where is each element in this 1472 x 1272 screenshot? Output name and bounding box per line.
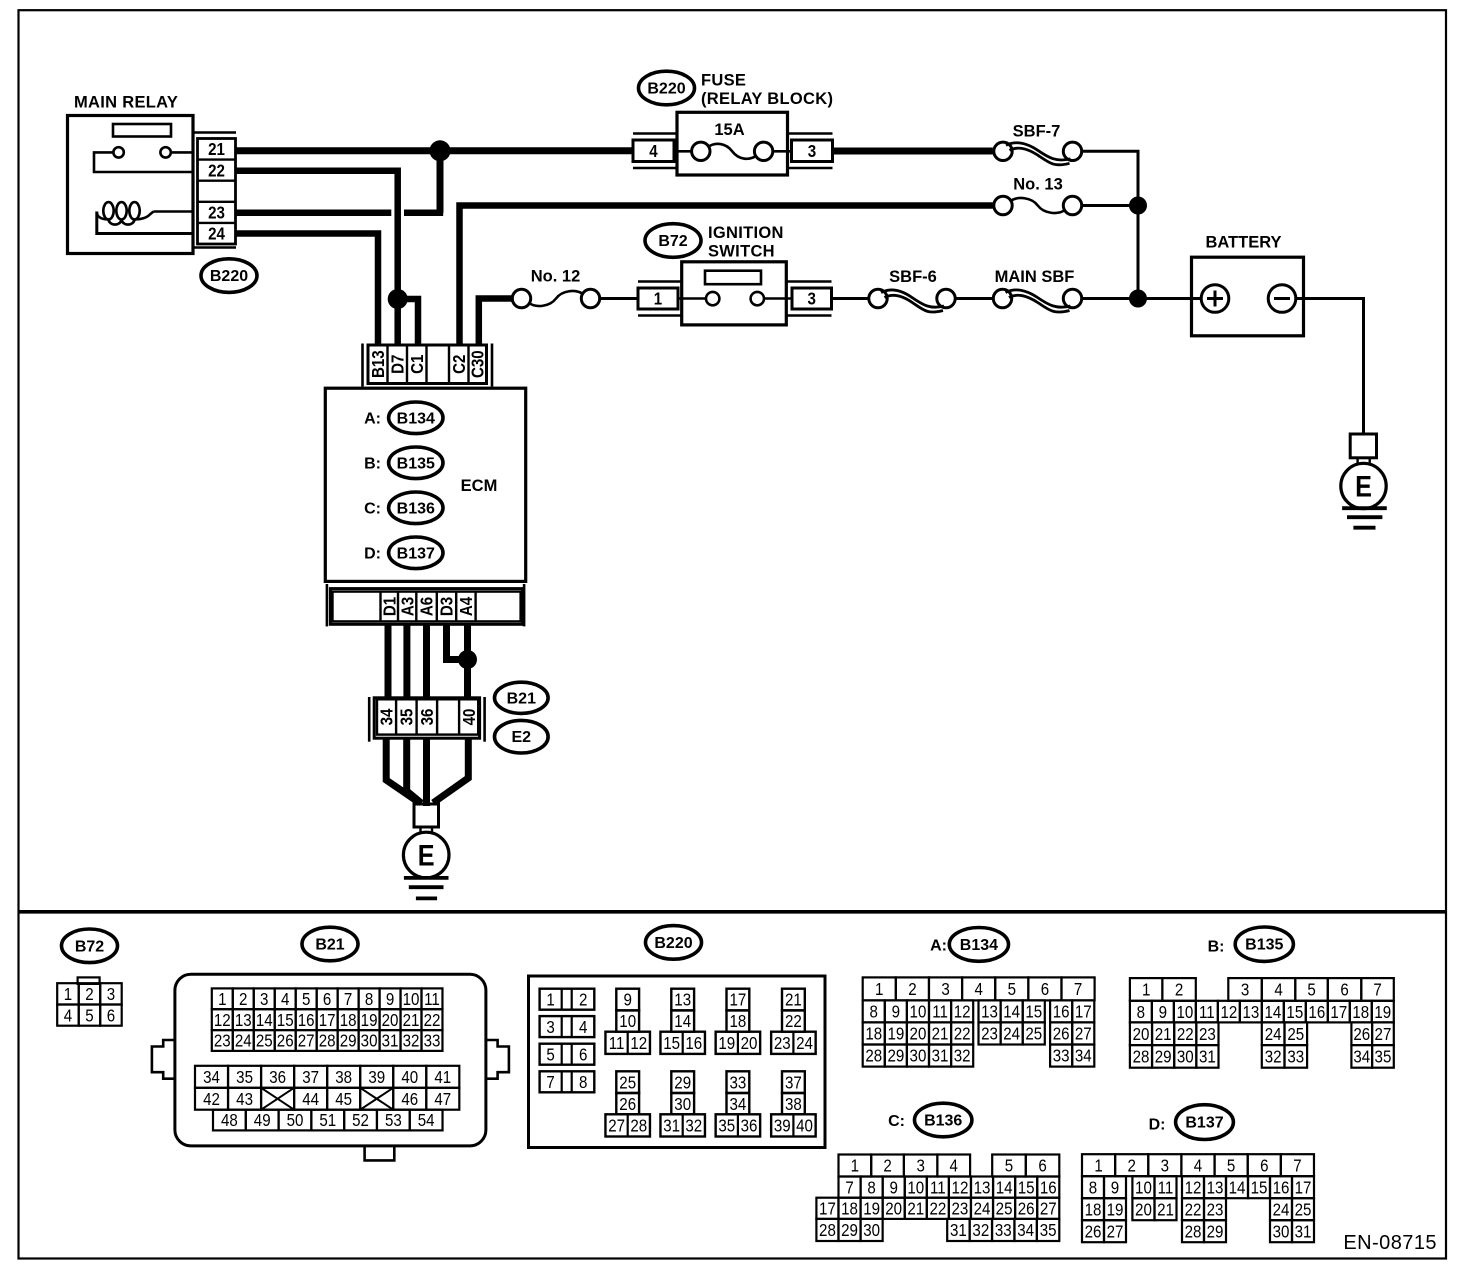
svg-text:B134: B134 — [397, 410, 435, 427]
ground connector flanges — [368, 697, 371, 742]
svg-text:4: 4 — [974, 979, 982, 1000]
svg-text:6: 6 — [107, 1005, 115, 1026]
svg-text:C2: C2 — [449, 355, 470, 374]
svg-text:4: 4 — [1274, 979, 1282, 1000]
svg-text:27: 27 — [1040, 1198, 1057, 1219]
svg-text:29: 29 — [1155, 1046, 1172, 1067]
svg-text:13: 13 — [1242, 1002, 1259, 1023]
svg-text:22: 22 — [785, 1011, 802, 1032]
ground connector pins 34/35/36/40 — [374, 698, 479, 738]
svg-text:31: 31 — [1199, 1046, 1216, 1067]
wire SBF-7 to bus — [1082, 151, 1138, 205]
svg-text:27: 27 — [608, 1115, 625, 1136]
svg-text:12: 12 — [630, 1033, 647, 1054]
svg-text:11: 11 — [1158, 1177, 1174, 1198]
svg-text:22: 22 — [1177, 1024, 1194, 1045]
svg-text:21: 21 — [785, 989, 802, 1010]
ground connector square (left) — [414, 804, 439, 827]
wire ECM C2 to fuse No.13 — [460, 206, 993, 346]
svg-text:10: 10 — [1135, 1177, 1152, 1198]
ECM connector B134 oval — [949, 928, 1008, 962]
svg-text:EN-08715: EN-08715 — [1343, 1232, 1437, 1254]
svg-text:14: 14 — [1229, 1177, 1246, 1198]
svg-text:32: 32 — [954, 1045, 971, 1066]
svg-text:15: 15 — [1251, 1177, 1268, 1198]
svg-text:18: 18 — [1085, 1199, 1102, 1220]
svg-text:(RELAY BLOCK): (RELAY BLOCK) — [701, 90, 833, 108]
svg-text:35: 35 — [1375, 1046, 1392, 1067]
relay block fuse groups — [605, 989, 815, 1137]
ECM bottom connector flanges — [326, 584, 329, 626]
svg-text:9: 9 — [1111, 1177, 1119, 1198]
svg-text:35: 35 — [396, 709, 417, 726]
svg-text:28: 28 — [319, 1030, 336, 1051]
svg-text:18: 18 — [865, 1023, 882, 1044]
svg-text:5: 5 — [1307, 979, 1315, 1000]
svg-text:26: 26 — [277, 1030, 294, 1051]
connector B21 pins 48-54 — [213, 1110, 443, 1131]
svg-text:7: 7 — [546, 1072, 554, 1093]
svg-text:24: 24 — [1265, 1024, 1282, 1045]
svg-text:C30: C30 — [467, 350, 488, 378]
svg-text:11: 11 — [932, 1001, 948, 1022]
svg-text:12: 12 — [214, 1010, 231, 1031]
svg-text:11: 11 — [1199, 1002, 1215, 1023]
connector B21 oval (bottom) — [302, 927, 358, 961]
svg-text:B13: B13 — [368, 350, 389, 378]
svg-text:2: 2 — [239, 989, 247, 1010]
svg-text:B135: B135 — [397, 455, 435, 472]
wire ECM C30 to fuse No.12 — [479, 299, 513, 346]
svg-text:13: 13 — [1207, 1177, 1224, 1198]
svg-text:8: 8 — [579, 1072, 587, 1093]
svg-text:9: 9 — [889, 1177, 897, 1198]
svg-text:11: 11 — [424, 989, 440, 1010]
wire pin23 (with crossover break) — [236, 209, 392, 216]
svg-text:22: 22 — [929, 1198, 946, 1219]
bus vertical to battery feed — [1137, 206, 1140, 299]
svg-text:6: 6 — [323, 989, 331, 1010]
svg-text:34: 34 — [1075, 1045, 1092, 1066]
svg-text:42: 42 — [203, 1089, 220, 1110]
svg-text:3: 3 — [1161, 1155, 1169, 1176]
svg-text:38: 38 — [785, 1094, 802, 1115]
svg-text:7: 7 — [1293, 1155, 1301, 1176]
funnel wire 34 — [386, 738, 419, 803]
svg-text:33: 33 — [1053, 1045, 1070, 1066]
wire ECM A4 to pin 40 — [464, 624, 471, 699]
svg-text:12: 12 — [952, 1177, 969, 1198]
svg-text:23: 23 — [214, 1030, 231, 1051]
svg-text:B:: B: — [1208, 938, 1225, 955]
svg-text:27: 27 — [1107, 1221, 1124, 1242]
svg-text:32: 32 — [403, 1030, 420, 1051]
svg-text:53: 53 — [385, 1110, 402, 1131]
svg-text:A6: A6 — [416, 597, 437, 616]
svg-text:19: 19 — [1107, 1199, 1124, 1220]
svg-text:51: 51 — [319, 1110, 336, 1131]
svg-text:14: 14 — [256, 1010, 273, 1031]
wire battery minus to ground E — [1304, 299, 1364, 435]
svg-text:34: 34 — [729, 1094, 746, 1115]
relay block cavity pairs 1-8 — [540, 989, 595, 1093]
relay connector strip B220 pins 21-24 — [193, 133, 236, 248]
svg-text:B220: B220 — [647, 81, 685, 98]
svg-text:14: 14 — [1003, 1001, 1020, 1022]
ECM bottom connector D1/A3/A6/D3/A4 — [330, 589, 522, 625]
svg-text:13: 13 — [235, 1010, 252, 1031]
svg-text:20: 20 — [885, 1198, 902, 1219]
ECM connector B137 oval — [1176, 1105, 1234, 1140]
svg-text:26: 26 — [619, 1094, 636, 1115]
svg-text:16: 16 — [1308, 1002, 1325, 1023]
fuse element — [692, 142, 710, 160]
connector E2 oval — [495, 720, 549, 753]
ground E circle (left) — [403, 832, 449, 878]
svg-text:1: 1 — [851, 1155, 859, 1176]
svg-text:30: 30 — [910, 1045, 927, 1066]
svg-text:23: 23 — [952, 1198, 969, 1219]
ECM connector B137 pin table — [1082, 1154, 1314, 1242]
ground connector square (right) — [1350, 434, 1376, 458]
svg-text:1: 1 — [875, 979, 883, 1000]
svg-text:23: 23 — [981, 1023, 998, 1044]
ECM connector B136 oval — [915, 1103, 972, 1137]
svg-text:D:: D: — [1149, 1116, 1166, 1133]
svg-text:31: 31 — [950, 1220, 967, 1241]
svg-text:15: 15 — [277, 1010, 294, 1031]
ground E circle (right) — [1341, 463, 1386, 508]
wire No.12 to ignition sw terminal 1 — [600, 297, 638, 300]
svg-text:19: 19 — [718, 1033, 735, 1054]
svg-text:1: 1 — [654, 288, 662, 309]
svg-text:A4: A4 — [456, 596, 477, 616]
ignition terminal 1 — [638, 288, 678, 309]
svg-text:B134: B134 — [960, 937, 998, 954]
svg-text:24: 24 — [1273, 1199, 1290, 1220]
funnel wire 40 — [433, 738, 468, 803]
svg-text:16: 16 — [298, 1010, 315, 1031]
section divider line — [20, 910, 1446, 914]
svg-text:11: 11 — [609, 1033, 625, 1054]
svg-text:54: 54 — [418, 1110, 435, 1131]
svg-text:18: 18 — [340, 1010, 357, 1031]
svg-text:12: 12 — [954, 1001, 971, 1022]
svg-text:E: E — [418, 839, 435, 873]
svg-text:36: 36 — [269, 1067, 286, 1088]
svg-text:31: 31 — [1295, 1221, 1312, 1242]
svg-text:17: 17 — [1075, 1001, 1092, 1022]
svg-text:31: 31 — [663, 1115, 680, 1136]
svg-text:27: 27 — [1375, 1024, 1392, 1045]
battery minus terminal — [1268, 285, 1296, 313]
svg-text:5: 5 — [546, 1044, 554, 1065]
ignition contact leads — [678, 297, 706, 300]
svg-text:15: 15 — [1286, 1002, 1303, 1023]
svg-text:10: 10 — [619, 1011, 636, 1032]
svg-text:5: 5 — [1008, 979, 1016, 1000]
svg-text:C1: C1 — [407, 355, 428, 374]
svg-text:44: 44 — [302, 1089, 319, 1110]
svg-text:MAIN SBF: MAIN SBF — [995, 268, 1075, 286]
svg-text:17: 17 — [1295, 1177, 1312, 1198]
svg-text:24: 24 — [208, 223, 225, 244]
svg-text:37: 37 — [785, 1072, 802, 1093]
svg-text:A:: A: — [930, 938, 947, 955]
svg-text:SBF-6: SBF-6 — [889, 268, 937, 286]
svg-text:47: 47 — [434, 1089, 451, 1110]
wire ECM A6 to pin 36 — [423, 624, 430, 699]
svg-text:30: 30 — [1273, 1221, 1290, 1242]
fuse terminal 3 — [792, 140, 833, 162]
svg-text:B136: B136 — [924, 1113, 962, 1130]
ground symbol (left) — [404, 876, 449, 880]
svg-text:4: 4 — [649, 141, 658, 162]
svg-text:31: 31 — [932, 1045, 949, 1066]
ignition terminal 3 — [792, 288, 832, 309]
fuse terminal 4 — [633, 140, 674, 162]
svg-text:40: 40 — [796, 1115, 813, 1136]
svg-text:11: 11 — [930, 1177, 946, 1198]
svg-text:20: 20 — [741, 1033, 758, 1054]
connector B21 oval — [495, 682, 549, 713]
svg-text:17: 17 — [1330, 1002, 1347, 1023]
svg-text:7: 7 — [845, 1177, 853, 1198]
svg-text:5: 5 — [1227, 1155, 1235, 1176]
svg-text:27: 27 — [298, 1030, 315, 1051]
svg-text:No. 13: No. 13 — [1013, 176, 1063, 194]
relay block B220 oval (bottom) — [646, 926, 702, 960]
svg-text:2: 2 — [579, 989, 587, 1010]
svg-text:32: 32 — [1265, 1046, 1282, 1067]
svg-text:18: 18 — [729, 1011, 746, 1032]
svg-text:5: 5 — [302, 989, 310, 1010]
svg-text:10: 10 — [1176, 1002, 1193, 1023]
svg-text:8: 8 — [1137, 1002, 1145, 1023]
svg-text:17: 17 — [819, 1198, 836, 1219]
svg-text:16: 16 — [1273, 1177, 1290, 1198]
svg-text:37: 37 — [302, 1067, 319, 1088]
svg-text:16: 16 — [685, 1033, 702, 1054]
ground symbol (right) — [1342, 506, 1387, 510]
svg-text:3: 3 — [808, 141, 816, 162]
svg-text:34: 34 — [1017, 1220, 1034, 1241]
svg-text:35: 35 — [718, 1115, 735, 1136]
svg-text:43: 43 — [236, 1089, 253, 1110]
svg-text:13: 13 — [981, 1001, 998, 1022]
svg-text:C:: C: — [364, 501, 381, 518]
svg-text:1: 1 — [1142, 979, 1150, 1000]
svg-text:7: 7 — [344, 989, 352, 1010]
svg-text:D3: D3 — [436, 597, 457, 616]
wire MAIN SBF to battery — [1082, 297, 1192, 300]
svg-text:6: 6 — [1340, 979, 1348, 1000]
svg-text:5: 5 — [85, 1005, 93, 1026]
svg-text:19: 19 — [361, 1010, 378, 1031]
svg-text:50: 50 — [287, 1110, 304, 1131]
svg-text:4: 4 — [281, 989, 289, 1010]
svg-text:35: 35 — [236, 1067, 253, 1088]
svg-text:B220: B220 — [210, 268, 248, 285]
svg-text:B137: B137 — [397, 545, 435, 562]
svg-text:10: 10 — [907, 1177, 924, 1198]
svg-text:23: 23 — [774, 1033, 791, 1054]
svg-text:3: 3 — [107, 984, 115, 1005]
svg-text:29: 29 — [841, 1220, 858, 1241]
connector B21 housing — [152, 974, 509, 1160]
svg-text:6: 6 — [579, 1044, 587, 1065]
svg-text:6: 6 — [1260, 1155, 1268, 1176]
svg-text:41: 41 — [434, 1067, 451, 1088]
svg-text:24: 24 — [974, 1198, 991, 1219]
svg-text:34: 34 — [376, 708, 397, 725]
relay coil — [97, 202, 193, 225]
svg-text:30: 30 — [361, 1030, 378, 1051]
svg-text:36: 36 — [417, 709, 438, 726]
svg-text:33: 33 — [1287, 1046, 1304, 1067]
connector B72 oval (bottom) — [62, 929, 118, 963]
junction node D7/C1 branch — [388, 289, 408, 309]
svg-text:12: 12 — [1185, 1177, 1202, 1198]
ignition contact right — [751, 292, 764, 305]
svg-text:34: 34 — [1353, 1046, 1370, 1067]
svg-text:26: 26 — [1053, 1023, 1070, 1044]
svg-text:23: 23 — [1207, 1199, 1224, 1220]
svg-text:4: 4 — [1194, 1155, 1202, 1176]
svg-text:26: 26 — [1353, 1024, 1370, 1045]
svg-text:26: 26 — [1085, 1221, 1102, 1242]
svg-text:32: 32 — [972, 1220, 989, 1241]
svg-text:16: 16 — [1053, 1001, 1070, 1022]
bus node at No.13 — [1129, 197, 1147, 215]
relay coil return path — [97, 212, 193, 234]
ECM top connector flanges — [361, 344, 364, 387]
svg-text:22: 22 — [208, 160, 225, 181]
svg-text:B72: B72 — [75, 938, 104, 955]
svg-text:27: 27 — [1075, 1023, 1092, 1044]
svg-text:23: 23 — [208, 202, 225, 223]
ECM body — [325, 388, 525, 581]
svg-text:33: 33 — [729, 1072, 746, 1093]
svg-text:28: 28 — [819, 1220, 836, 1241]
wire ignition 3 to SBF-6 — [832, 297, 869, 300]
wire pin24 to ECM B13 — [236, 234, 379, 346]
ignition contact left — [706, 292, 719, 305]
svg-text:24: 24 — [1003, 1023, 1020, 1044]
main relay body — [68, 116, 194, 254]
svg-text:17: 17 — [319, 1010, 336, 1031]
svg-text:22: 22 — [1185, 1199, 1202, 1220]
svg-text:15A: 15A — [714, 121, 744, 139]
svg-text:25: 25 — [1287, 1024, 1304, 1045]
svg-text:48: 48 — [221, 1110, 238, 1131]
svg-text:3: 3 — [916, 1155, 924, 1176]
svg-text:8: 8 — [1089, 1177, 1097, 1198]
relay block B220 outline — [529, 976, 826, 1148]
svg-text:25: 25 — [1295, 1199, 1312, 1220]
connector B72 pin grid — [57, 977, 122, 1025]
svg-text:28: 28 — [630, 1115, 647, 1136]
ECM connector B136 pin table — [816, 1155, 1059, 1242]
svg-text:FUSE: FUSE — [701, 72, 746, 90]
svg-text:40: 40 — [459, 709, 480, 726]
svg-text:25: 25 — [619, 1072, 636, 1093]
svg-text:E: E — [1355, 469, 1372, 503]
ECM connector B134 pin table — [863, 977, 1095, 1066]
svg-text:7: 7 — [1074, 979, 1082, 1000]
svg-text:3: 3 — [941, 979, 949, 1000]
svg-text:28: 28 — [865, 1045, 882, 1066]
svg-text:BATTERY: BATTERY — [1205, 233, 1281, 251]
svg-text:36: 36 — [741, 1115, 758, 1136]
relay contact left — [113, 147, 123, 157]
relay contact right — [160, 147, 170, 157]
svg-text:20: 20 — [1135, 1199, 1152, 1220]
fuse leads — [674, 150, 692, 153]
svg-text:20: 20 — [382, 1010, 399, 1031]
svg-text:3: 3 — [546, 1017, 554, 1038]
svg-text:B21: B21 — [315, 937, 344, 954]
relay contact wiring — [94, 152, 193, 172]
svg-text:2: 2 — [85, 984, 93, 1005]
svg-text:1: 1 — [1094, 1155, 1102, 1176]
wire pin22 to ECM D7 — [236, 171, 398, 345]
svg-text:46: 46 — [401, 1089, 418, 1110]
svg-text:20: 20 — [910, 1023, 927, 1044]
wire ECM A3 to pin 35 — [403, 624, 410, 699]
wire ECM D3 branch — [447, 624, 468, 659]
svg-text:9: 9 — [386, 989, 394, 1010]
svg-text:14: 14 — [996, 1177, 1013, 1198]
ignition switch body — [682, 262, 787, 325]
svg-text:MAIN RELAY: MAIN RELAY — [74, 94, 178, 112]
svg-text:16: 16 — [1040, 1177, 1057, 1198]
svg-text:39: 39 — [368, 1067, 385, 1088]
svg-text:21: 21 — [403, 1010, 420, 1031]
wire No.13 to bus — [1082, 204, 1138, 207]
connector B21 pins 1-33 — [212, 988, 443, 1051]
svg-text:C:: C: — [888, 1113, 905, 1130]
svg-text:9: 9 — [892, 1001, 900, 1022]
junction node wire21/wire23 — [430, 140, 451, 161]
svg-text:D7: D7 — [387, 355, 408, 374]
svg-text:3: 3 — [1241, 979, 1249, 1000]
svg-text:25: 25 — [1025, 1023, 1042, 1044]
svg-text:6: 6 — [1038, 1155, 1046, 1176]
svg-text:22: 22 — [954, 1023, 971, 1044]
svg-text:8: 8 — [365, 989, 373, 1010]
svg-text:1: 1 — [64, 984, 72, 1005]
connector B220 oval (below relay) — [201, 259, 257, 293]
svg-text:38: 38 — [335, 1067, 352, 1088]
svg-text:18: 18 — [841, 1198, 858, 1219]
svg-text:2: 2 — [1128, 1155, 1136, 1176]
svg-text:7: 7 — [1373, 979, 1381, 1000]
svg-text:12: 12 — [1220, 1002, 1237, 1023]
svg-text:19: 19 — [1374, 1002, 1391, 1023]
svg-text:B136: B136 — [397, 500, 435, 517]
svg-text:30: 30 — [863, 1220, 880, 1241]
svg-text:9: 9 — [1159, 1002, 1167, 1023]
svg-text:15: 15 — [1025, 1001, 1042, 1022]
wire pin21 to fuse 4 — [236, 147, 634, 154]
svg-text:24: 24 — [796, 1033, 813, 1054]
svg-text:ECM: ECM — [461, 477, 498, 495]
svg-text:8: 8 — [867, 1177, 875, 1198]
wire branch to ECM C1 — [398, 299, 418, 345]
junction node D3/A4 — [458, 650, 477, 669]
ECM top connector B13/D7/C1/C2/C30 — [368, 345, 488, 384]
